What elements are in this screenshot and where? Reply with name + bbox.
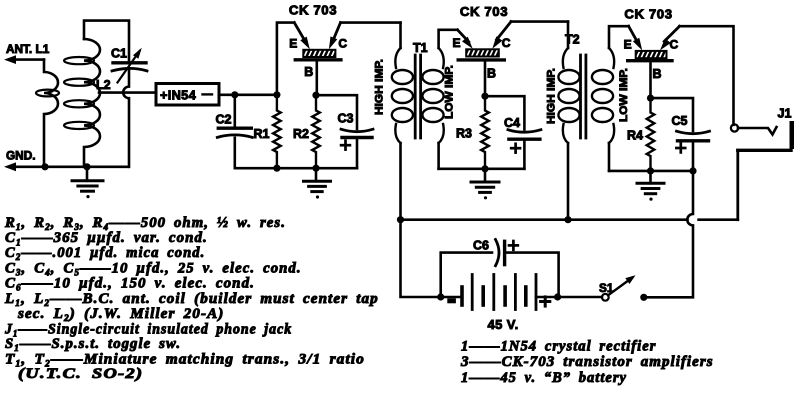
capacitor C3 electrolytic [342,136,372,139]
svg-text:GND.: GND. [6,149,36,163]
svg-text:C: C [338,36,347,50]
svg-text:(U.T.C. SO-2): (U.T.C. SO-2) [18,365,143,382]
wire base3 to C5 [651,98,694,131]
junction L2 bottom [83,163,90,170]
capacitor C2 [234,95,237,127]
inductor L2 [84,39,100,167]
svg-text:E: E [624,37,632,51]
svg-text:HIGH IMP.: HIGH IMP. [546,68,558,124]
ground stage2 [484,169,487,182]
junction R1 bottom [273,165,280,172]
svg-text:ANT. L1: ANT. L1 [6,42,50,56]
wire tank bottom rail [45,166,128,169]
svg-text:C2: C2 [216,113,232,127]
svg-text:C4: C4 [504,116,520,130]
svg-text:C: C [502,36,511,50]
svg-text:3——CK-703 transistor amplifier: 3——CK-703 transistor amplifiers [460,354,714,370]
svg-text:+IN54: +IN54 [160,87,197,102]
wire emitter1 riser [277,23,294,95]
capacitor C6 bypass loop [441,253,492,297]
label C4 polarity + [511,147,520,150]
svg-text:S1​——S.p.s.t. toggle sw.: S1​——S.p.s.t. toggle sw. [5,336,181,353]
capacitor C1 variable [113,61,146,64]
resistor R1 [273,95,281,168]
junction detector-R1-emitter [273,91,280,98]
wire base1 to C3 [316,95,357,129]
svg-text:R3: R3 [456,127,472,141]
wire detector output [219,94,277,97]
resistor R4 [647,98,655,171]
ground stage3 [649,171,652,183]
svg-text:B: B [304,65,313,79]
svg-text:J1: J1 [778,107,792,121]
svg-text:R2: R2 [293,127,309,141]
svg-text:CK 703: CK 703 [460,4,508,19]
junction switch contact [640,294,647,301]
svg-text:C1: C1 [111,47,127,61]
transformer T2 primary winding [567,22,570,48]
svg-text:HIGH IMP.: HIGH IMP. [374,59,386,115]
wire stage1 bottom rail [235,167,357,170]
wire antenna lead with arrow [10,58,44,61]
resistor R3 [481,96,489,169]
junction detector-C2 [231,91,238,98]
jack J1 phone jack [731,124,738,131]
svg-text:B: B [487,66,496,80]
svg-text:C6: C6 [473,239,489,253]
svg-text:C6​——10 µfd., 150 v. elec. con: C6​——10 µfd., 150 v. elec. cond. [5,275,255,292]
wire C5 junction down to switch with hop over rail [692,142,695,171]
wire tank top rail [84,21,129,62]
svg-text:LOW IMP.: LOW IMP. [444,65,456,119]
label C6 polarity + [509,244,518,247]
capacitor C5 electrolytic [678,139,709,142]
wire ground lead with arrow [10,166,45,169]
wire collector2 to T2 [511,20,568,23]
svg-text:1——45 v. “B” battery: 1——45 v. “B” battery [461,370,627,386]
label battery plus [541,300,550,303]
junction rail T1 [397,216,404,223]
switch S1 toggle [602,294,609,301]
junction C6 left [437,293,444,300]
junction base1 [312,92,319,99]
label C3 polarity + [341,144,350,147]
wire collector3 to J1 [680,26,734,125]
junction base2 [481,93,488,100]
transformer T2 core [579,55,582,138]
svg-text:C: C [670,37,679,51]
label C5 polarity + [676,147,685,150]
svg-text:C3: C3 [338,112,354,126]
svg-text:1——1N54 crystal rectifier: 1——1N54 crystal rectifier [461,338,656,354]
wire collector1 to T1 [341,21,401,24]
junction R3 bottom ground [481,165,488,172]
inductor L1 [44,60,58,167]
junction base3 [647,95,654,102]
junction C6 right [554,293,561,300]
svg-text:T2: T2 [565,33,580,47]
transformer T1 primary winding [399,23,402,48]
svg-text:S1: S1 [599,281,614,295]
svg-text:R1: R1 [254,127,270,141]
junction C5 bottom [689,167,696,174]
svg-text:L2: L2 [96,78,111,92]
capacitor C4 electrolytic [509,137,540,140]
svg-text:LOW IMP.: LOW IMP. [618,68,630,122]
wire B-minus rail [401,218,688,221]
label battery minus [447,298,456,303]
wire battery positive to switch [536,296,602,299]
transformer T2 secondary winding [609,26,629,48]
svg-text:E: E [289,36,297,50]
junction R4 bottom [647,167,654,174]
junction rail T2 [564,216,571,223]
svg-text:R4: R4 [627,129,643,143]
junction L1 bottom [41,163,48,170]
svg-text:B: B [653,67,662,81]
svg-text:45 V.: 45 V. [488,317,519,332]
svg-text:E: E [452,36,460,50]
svg-text:T1: T1 [413,41,428,55]
diode 1N54 rectifier box [156,84,219,106]
wire base2 to C4 [485,96,524,129]
svg-text:CK 703: CK 703 [289,3,337,18]
ground tank [86,167,89,181]
resistor R2 [312,95,320,168]
ground stage1 [315,168,318,181]
transformer T1 secondary winding [439,30,458,48]
transformer T1 core [414,55,417,138]
junction R2 bottom ground [312,165,319,172]
svg-text:C5: C5 [672,114,688,128]
wire stage2 bottom rail [439,168,525,171]
svg-text:CK 703: CK 703 [624,7,672,22]
battery B1 45V [460,287,464,305]
wire stage3 bottom rail [609,170,693,173]
wire detector tap from L2 center [99,91,156,94]
wire battery negative riser [401,220,460,297]
